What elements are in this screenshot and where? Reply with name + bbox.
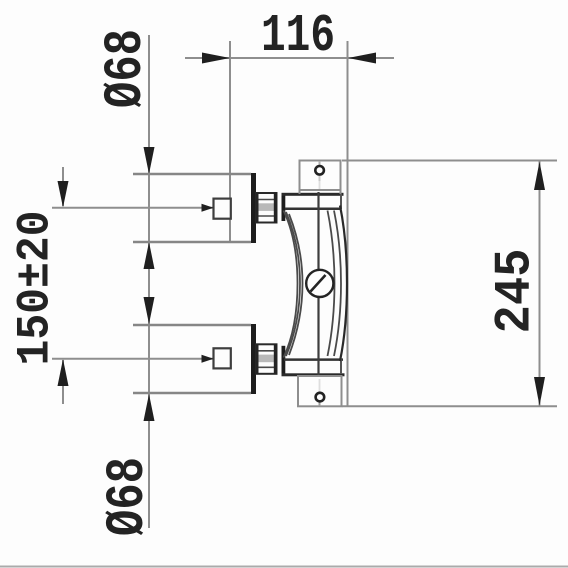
valve body left arc 1 xyxy=(284,211,298,358)
top centerline arrow xyxy=(202,204,214,212)
svg-text:116: 116 xyxy=(261,6,335,66)
bottom mounting plate xyxy=(298,376,342,406)
dimension 245 arrow up xyxy=(534,162,545,191)
valve body right outer bow xyxy=(340,206,347,362)
top plate side stubs xyxy=(299,190,301,194)
bottom connector flange xyxy=(251,324,256,394)
dimension 245 line xyxy=(539,161,541,406)
dimension D68 top arrow down xyxy=(144,147,155,174)
dimension 116 line xyxy=(185,57,394,59)
top mounting plate xyxy=(300,161,341,191)
valve body top arm top edge xyxy=(282,193,344,196)
bottom hex nut xyxy=(256,344,277,375)
svg-text:245: 245 xyxy=(488,249,545,334)
dimension 116 right arrow xyxy=(348,53,376,64)
valve body bottom arm top edge xyxy=(284,358,343,361)
top hex nut xyxy=(256,193,277,224)
svg-text:Ø68: Ø68 xyxy=(98,457,159,536)
valve body top arm bottom edge xyxy=(285,207,341,210)
dimension 245 extension line bottom xyxy=(342,405,557,407)
bottom plate hole xyxy=(316,393,325,402)
valve body bottom arm bottom edge xyxy=(282,373,345,376)
dimension 245 extension line top xyxy=(342,160,557,162)
valve body left arc 2 xyxy=(286,212,300,356)
dimension D68 middle arrow down xyxy=(144,297,155,324)
top plate hole xyxy=(315,166,324,175)
dimension 116 left arrow xyxy=(202,53,230,64)
top nipple bar xyxy=(282,193,286,221)
screw slot xyxy=(311,275,326,292)
dimension 150+-20 upper arrow down xyxy=(58,181,69,208)
dimension D68 middle arrow up xyxy=(144,242,155,269)
dimension D68 line (continuous) xyxy=(148,35,150,528)
bottom border line xyxy=(0,566,568,568)
valve body right edge bottom xyxy=(340,359,342,374)
top plate screw centerline stubs xyxy=(319,161,321,165)
bottom centerline arrow xyxy=(202,355,214,363)
centerline bottom connector xyxy=(52,358,214,360)
dimension 150+-20 upper line xyxy=(62,167,64,206)
screw head xyxy=(306,270,333,297)
bottom connector inlet box xyxy=(214,348,231,368)
valve body right edge top xyxy=(340,194,342,209)
dimension 150+-20 lower line xyxy=(62,360,64,404)
dimension 245 arrow down xyxy=(534,377,545,406)
svg-text:Ø68: Ø68 xyxy=(96,29,157,108)
top connector body xyxy=(133,173,251,175)
valve body right inner bow 1 xyxy=(328,211,335,357)
top connector inlet box xyxy=(214,199,231,219)
svg-text:150±20: 150±20 xyxy=(10,211,62,366)
valve body center line xyxy=(317,192,319,375)
dimension 116 extension line left xyxy=(229,41,231,242)
bottom connector body xyxy=(133,324,251,326)
dimension 116 extension line right xyxy=(347,41,349,406)
centerline top connector xyxy=(52,207,214,209)
top connector flange xyxy=(251,173,256,243)
valve body right inner bow 2 xyxy=(334,211,341,357)
bottom plate screw centerline stubs xyxy=(319,403,321,407)
dimension D68 bottom arrow up xyxy=(144,394,155,421)
dimension 150+-20 lower arrow up xyxy=(58,359,69,386)
valve body left arc 3 xyxy=(289,214,303,355)
bottom nipple bar xyxy=(282,346,286,375)
